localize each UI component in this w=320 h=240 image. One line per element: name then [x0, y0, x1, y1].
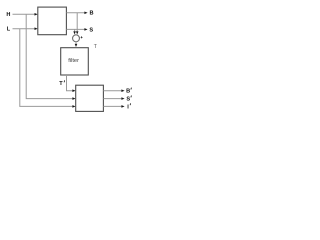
block bottom box U2: [76, 85, 104, 111]
block filter box: [61, 48, 89, 75]
arrowhead B drop into circle: [76, 31, 79, 34]
svg-text:S: S: [126, 97, 130, 103]
arrowhead into filter: [75, 44, 78, 47]
prime of T': [63, 80, 66, 82]
svg-text:B: B: [126, 89, 130, 95]
wire H branch down to bottom box input 2: [26, 14, 73, 98]
wire B output: [66, 12, 85, 14]
arrowhead S: [84, 28, 87, 31]
arrowhead B: [84, 12, 87, 15]
block top box U1: [38, 7, 67, 35]
arrowhead B': [121, 89, 124, 92]
plus label: [81, 36, 83, 38]
wire S' output: [103, 98, 122, 100]
arrowhead filter wire into bottom box: [72, 89, 75, 92]
arrowhead H branch into bottom box: [72, 97, 75, 100]
wire L input: [13, 28, 36, 30]
svg-text:H: H: [6, 12, 10, 18]
wire H input: [13, 13, 36, 15]
arrowhead I': [121, 105, 124, 108]
svg-text:B: B: [89, 11, 93, 17]
arrowhead L branch into bottom box: [72, 105, 75, 108]
wire S output: [66, 28, 85, 30]
wire filter output T' to bottom box input 1: [67, 75, 74, 91]
wire I' output: [103, 105, 122, 107]
svg-text:S: S: [89, 27, 93, 33]
svg-text:T: T: [59, 81, 63, 87]
adder circle node: [73, 35, 80, 42]
wire S drop to adder: [74, 29, 76, 32]
wire B' output: [103, 90, 122, 92]
arrowhead L into top box: [35, 27, 38, 30]
svg-text:filter: filter: [68, 58, 79, 64]
prime of S': [130, 96, 133, 98]
arrowhead H into top box: [35, 13, 38, 16]
svg-text:L: L: [7, 27, 11, 33]
wire adder to filter: [75, 42, 77, 45]
arrowhead S drop into circle: [73, 31, 76, 34]
wire B drop to adder: [76, 13, 78, 33]
background: [0, 0, 139, 120]
arrowhead S': [121, 97, 124, 100]
prime of B': [130, 88, 133, 90]
prime of I': [129, 103, 132, 105]
wire L branch down to bottom box input 3: [20, 29, 74, 107]
